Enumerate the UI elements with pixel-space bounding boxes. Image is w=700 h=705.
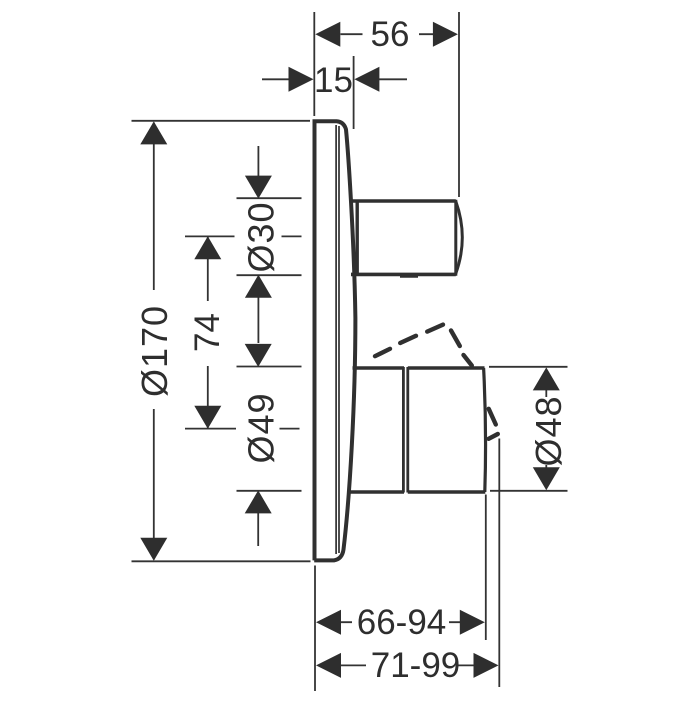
centerline diverter left [185,235,302,237]
handle grip bottom edge [408,490,486,494]
extension line wall plane bottom [314,566,316,692]
dimension 71-99 tails [341,664,474,666]
svg-text:74: 74 [188,313,227,352]
handle rotated position dash 5 [464,355,472,366]
arrowhead 15 left (outside) [289,67,314,92]
arrowhead Ø49 bottom (outside below) [245,490,272,513]
dimension Ø49 tails [257,345,259,546]
extension line Ø49 bottom [237,490,302,492]
arrowhead Ø30 bottom (outside below) [245,275,272,298]
diverter cylinder bottom edge [351,273,456,277]
handle rotated position dash 7 [489,434,498,439]
extension line plate front (15) [353,56,355,129]
arrowhead 15 right (outside) [354,67,379,92]
sleeve/handle joint line right [406,367,409,493]
extension line wall plane top [313,12,315,116]
centerline handle left [185,428,300,430]
extension line diverter end (56) [458,12,460,197]
extension line Ø48 bottom [490,490,568,492]
arrowhead 71-99 right [474,653,499,678]
extension line Ø170 bottom [132,560,311,562]
svg-text:Ø49: Ø49 [241,392,282,463]
arrowhead Ø170 top [140,121,167,144]
dimension 15 line tails [262,78,407,80]
arrowhead 66-94 right [460,610,485,635]
arrowhead 56 right [433,22,458,47]
extension line Ø30 bottom [237,274,302,276]
svg-text:71-99: 71-99 [371,646,461,685]
svg-text:56: 56 [371,15,410,54]
arrowhead Ø48 bottom (inside) [533,467,560,490]
handle rotated position dash 6 [489,409,496,425]
handle rotated position dash 3 [427,325,443,332]
dimension 56 line tails [341,33,434,35]
diverter cylinder end cap arc [456,201,463,273]
extension line Ø48 top [489,366,568,368]
plate front face line 1 [335,125,337,554]
plate front face line 2 [338,126,340,553]
arrowhead 74 top [194,236,221,259]
svg-text:15: 15 [314,61,353,100]
arrowhead 71-99 left [316,653,341,678]
extension line Ø30 top [237,197,302,199]
extension line Ø170 top [132,120,311,122]
sleeve/handle joint line left [402,367,405,493]
handle grip right end edge [484,368,486,492]
diverter cylinder right edge [454,200,457,276]
handle sleeve top edge [353,366,405,370]
arrowhead 66-94 left [316,610,341,635]
svg-text:Ø48: Ø48 [528,395,569,466]
handle rotated position dash 1 [375,349,390,356]
arrowhead 74 bottom [194,406,221,429]
handle sleeve bottom edge [350,490,405,494]
extension line Ø49 top [237,366,302,368]
svg-text:66-94: 66-94 [357,603,447,642]
escutcheon plate outline [314,121,355,560]
diverter cylinder left edge [356,200,359,276]
handle grip top edge [408,366,485,369]
arrowhead Ø48 top (inside) [533,367,560,390]
dimension Ø30 tails [257,146,259,343]
arrowhead Ø49 top (outside above) [245,344,272,367]
dimension Ø170 line segments [153,123,155,560]
svg-text:Ø170: Ø170 [134,305,175,397]
dimension Ø48 segments [545,390,547,468]
diverter cylinder top edge [351,199,456,203]
svg-text:Ø30: Ø30 [241,201,282,272]
handle rotated position dash 2 [400,336,416,343]
extension line handle end bottom [485,495,487,641]
arrowhead Ø30 top (outside above) [245,176,272,199]
diverter bottom notch [400,276,418,278]
arrowhead 56 left [315,22,340,47]
dimension 74 line segments [207,237,209,428]
arrowhead Ø170 bottom [140,538,167,561]
extension line lever tip bottom [498,439,500,688]
handle rotated position dash 4 [451,331,460,347]
dimension 66-94 tails [341,621,460,623]
